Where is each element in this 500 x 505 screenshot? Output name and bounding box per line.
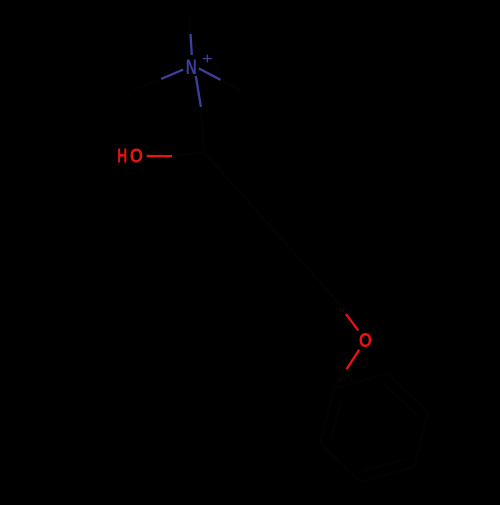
charge plus [203, 55, 212, 63]
bond N-CH3 left (N half) [161, 70, 183, 79]
bond N-CH3 up (carbon half) [189, 13, 190, 34]
bond C5-O (carbon half) [334, 298, 346, 315]
bond N-C2 down (carbon half) [201, 107, 204, 152]
chain C2-C3-C4-C5 [204, 152, 334, 298]
bond C2-OH (carbon half) [172, 152, 204, 156]
bond N-CH3 right (carbon half) [221, 80, 243, 91]
bond N-CH3 up (N half) [191, 34, 192, 55]
bond N-C2 down (N half) [196, 76, 201, 107]
svg-text:O: O [359, 330, 372, 352]
bond O-C6 ring (O half) [347, 350, 360, 370]
bond O-C6 ring (carbon half) [334, 369, 347, 389]
svg-text:N: N [186, 56, 197, 79]
benzene ring [320, 373, 428, 482]
svg-text:H: H [117, 146, 127, 168]
bond N-CH3 right (N half) [199, 68, 221, 79]
bond N-CH3 left (carbon half) [133, 79, 161, 90]
benzene inner double bond 3 [331, 397, 342, 440]
bond C2-OH (O half) [147, 155, 172, 157]
svg-text:O: O [130, 146, 143, 168]
bond C5-O ether (O half) [346, 314, 358, 331]
benzene inner double bond 1 [385, 384, 417, 415]
benzene inner double bond 2 [363, 459, 406, 471]
